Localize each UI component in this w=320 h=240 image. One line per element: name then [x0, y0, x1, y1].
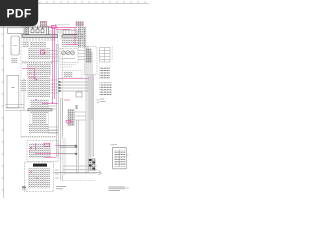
page number mark: [22, 186, 28, 190]
sub cluster A6: [29, 124, 48, 133]
table T1: [100, 48, 111, 63]
amplifier cluster A1: [28, 49, 50, 60]
vertical pair mid low: [77, 120, 79, 173]
output cluster A8: [28, 169, 50, 189]
dashed box F transistor bank: [60, 49, 78, 63]
highlighted net W1: [41, 50, 46, 54]
label row top text: [22, 25, 50, 27]
aux cluster inside E: [86, 49, 92, 63]
section divider vertical left: [20, 28, 22, 137]
bus bar B3: [62, 35, 84, 37]
connector block J1: [8, 28, 24, 34]
IF cluster A3: [28, 76, 51, 97]
highlighted net W3: [28, 77, 35, 81]
magenta net mid W10: [58, 77, 90, 79]
dashed box G: [62, 71, 82, 79]
label row text S2: [21, 136, 56, 138]
dashed box P output stage: [25, 162, 54, 192]
vertical bus pair gray: [57, 44, 59, 157]
capacitor bank C1: [31, 27, 49, 35]
title mark above frame: [41, 22, 55, 27]
dark component chain D2: [82, 27, 86, 48]
shielded pair runs: [60, 146, 76, 154]
highlighted net W4: [29, 143, 60, 157]
component labels right of box P: [55, 170, 59, 178]
highlighted net W8: [66, 44, 78, 46]
coil under relay: [12, 58, 18, 63]
bottom note text S: [109, 187, 130, 191]
section frame top line: [0, 27, 58, 29]
mid cluster A10: [68, 109, 75, 126]
magenta net top W7: [50, 28, 77, 104]
transistor Q1: [61, 51, 65, 55]
note block T2: [100, 67, 111, 80]
small component D3: [75, 105, 78, 109]
wires to left border: [5, 105, 30, 111]
top border ruler line: [0, 1, 149, 3]
regulator cluster A7: [29, 143, 51, 158]
vertical pair left-mid: [61, 98, 63, 181]
driver cluster A5: [32, 113, 47, 129]
wires A4 out: [30, 106, 58, 133]
IC U1 pin cluster: [25, 27, 29, 34]
svg-text:PDF: PDF: [7, 6, 32, 20]
interbus wires: [48, 31, 78, 47]
speaker cable runs: [63, 166, 97, 173]
header dotted label: [55, 24, 70, 26]
left border line with ticks: [1, 0, 3, 198]
audio cluster A4: [31, 101, 48, 114]
page background: [0, 0, 149, 198]
section divider vertical mid: [57, 28, 59, 62]
bus trunk shading: [89, 74, 94, 157]
title block legend R: [113, 148, 127, 169]
dashed box K: [30, 100, 49, 133]
magenta dots top of A3: [33, 76, 37, 100]
wire harness H1: [60, 82, 90, 91]
dashed box M power supply: [27, 141, 58, 162]
wires A6 out: [48, 127, 58, 133]
small box H2: [76, 92, 82, 97]
dark component chain D1: [78, 27, 82, 48]
bus stub wires: [24, 37, 54, 41]
tuner cluster A2: [27, 64, 51, 75]
small parts left of RN1: [23, 41, 30, 47]
wires F to E: [78, 51, 85, 60]
magenta mark W11: [64, 100, 71, 123]
pink mark header: [76, 23, 85, 25]
magenta source box W6: [52, 25, 57, 28]
resistor network RN1: [30, 42, 46, 48]
header cluster above D1: [76, 21, 84, 27]
dashed section line S1: [22, 60, 57, 62]
tiny note mid right: [97, 100, 100, 102]
dashed box E aux: [85, 47, 98, 75]
note block T3: [100, 83, 112, 96]
magenta drop W9: [74, 28, 76, 45]
wire end connectors: [59, 81, 61, 92]
label row text S1: [22, 62, 52, 64]
dashed end line: [62, 180, 96, 182]
transistor labels: [62, 58, 76, 60]
small note T4: [100, 99, 106, 102]
note rows under box F: [60, 64, 76, 66]
transistor Q2: [66, 51, 70, 55]
bus bar B2: [28, 109, 52, 111]
connector arrow right: [54, 171, 102, 176]
dashed vline A10: [62, 48, 64, 131]
transistor Q3: [70, 51, 74, 55]
data bus bar B1: [22, 35, 58, 38]
parts inside G: [64, 72, 73, 78]
highlighted net W12: [42, 103, 58, 105]
dark component chain D4: [89, 158, 96, 171]
legend caption above: [111, 144, 118, 146]
heatsink bar: [33, 164, 47, 167]
wires A1 out: [50, 51, 57, 58]
highlighted dots W5: [30, 171, 37, 178]
wires A3 out: [50, 80, 58, 93]
caption text bottom left: [56, 187, 66, 189]
table side labels: [112, 47, 114, 59]
capacitor bank pins: [32, 27, 44, 29]
transformer T1 outline box: [7, 76, 19, 109]
highlighted net W2: [22, 69, 35, 76]
shield connectors: [75, 145, 77, 155]
filter cluster A9: [62, 39, 78, 46]
cable trunk shading low: [62, 138, 66, 175]
IC U2 top right: [63, 30, 77, 34]
relay K1 rounded body: [11, 36, 19, 55]
parts beside transformer: [21, 80, 27, 92]
vertical bus right: [86, 46, 93, 173]
PDF badge: [0, 0, 38, 26]
left drop wire: [23, 78, 25, 110]
